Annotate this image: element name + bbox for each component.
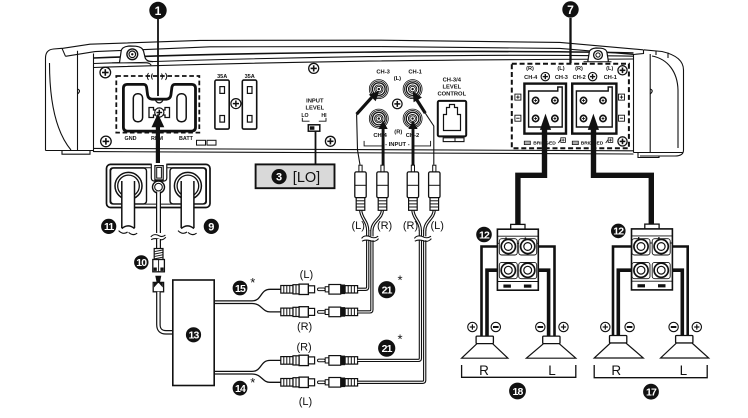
svg-text:R: R [611, 363, 621, 378]
svg-text:LEVEL: LEVEL [442, 85, 461, 91]
svg-text:(R): (R) [297, 321, 312, 333]
svg-text:GND: GND [125, 136, 137, 142]
svg-text:21: 21 [382, 284, 393, 296]
svg-text:L: L [680, 363, 688, 378]
svg-text:CH-1: CH-1 [408, 70, 422, 76]
svg-text:CH-2: CH-2 [573, 75, 586, 81]
svg-text:(L): (L) [430, 220, 443, 232]
svg-text:13: 13 [188, 330, 199, 342]
svg-text:12: 12 [613, 226, 624, 238]
svg-text:CH-4: CH-4 [373, 133, 387, 139]
svg-text:7: 7 [567, 3, 574, 17]
svg-text:35A: 35A [217, 74, 227, 80]
svg-text:*: * [250, 375, 255, 390]
svg-text:(L): (L) [557, 66, 564, 72]
svg-text:(R): (R) [526, 66, 534, 72]
svg-text:(L): (L) [299, 396, 312, 408]
svg-text:*: * [397, 273, 402, 288]
svg-text:CONTROL: CONTROL [437, 92, 466, 98]
svg-text:L: L [548, 363, 556, 378]
svg-text:11: 11 [104, 221, 114, 233]
svg-text:(R): (R) [403, 220, 418, 232]
svg-text:21: 21 [382, 343, 393, 355]
svg-text:(L): (L) [300, 269, 313, 281]
svg-text:(L): (L) [394, 76, 401, 82]
svg-text:*: * [250, 275, 255, 290]
svg-text:(R): (R) [575, 66, 583, 72]
svg-text:- INPUT -: - INPUT - [385, 142, 410, 148]
svg-text:CH-3: CH-3 [376, 70, 390, 76]
svg-text:9: 9 [208, 221, 214, 233]
svg-text:1: 1 [155, 4, 162, 18]
svg-text:(R): (R) [296, 342, 311, 354]
svg-text:15: 15 [235, 283, 246, 295]
svg-text:12: 12 [479, 229, 490, 241]
svg-text:14: 14 [235, 383, 246, 395]
svg-text:10: 10 [136, 257, 147, 269]
svg-text:CH-3: CH-3 [555, 75, 568, 81]
svg-text:CH-3/4: CH-3/4 [443, 77, 462, 83]
svg-text:INPUT: INPUT [306, 99, 324, 105]
svg-text:3: 3 [276, 172, 282, 184]
svg-text:18: 18 [512, 386, 523, 398]
svg-text:(L): (L) [606, 66, 613, 72]
svg-text:*: * [397, 332, 402, 347]
svg-text:(R): (R) [377, 220, 392, 232]
svg-text:BATT: BATT [179, 136, 194, 142]
svg-text:(L): (L) [351, 220, 364, 232]
svg-text:CH-4: CH-4 [524, 75, 538, 81]
svg-text:35A: 35A [245, 74, 255, 80]
svg-text:[LO]: [LO] [293, 170, 320, 186]
svg-text:(R): (R) [394, 129, 402, 135]
svg-text:LEVEL: LEVEL [305, 106, 324, 112]
svg-text:R: R [479, 363, 489, 378]
svg-text:17: 17 [646, 386, 657, 398]
svg-text:CH-1: CH-1 [604, 75, 617, 81]
